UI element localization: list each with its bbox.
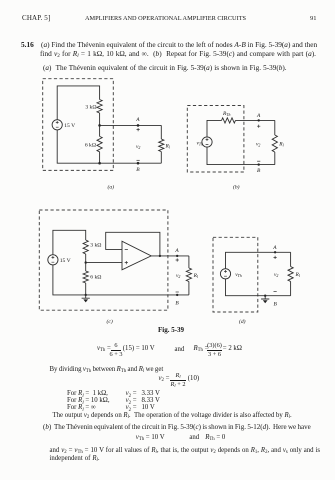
node B (c) [175, 292, 179, 307]
node A (a) [135, 117, 140, 131]
wire: junction to 6k and 6k to bottom (a) [99, 125, 101, 163]
wire: junction to node A and load corner (a) [100, 124, 162, 126]
svg-text:B: B [257, 168, 261, 174]
svg-text:6 kΩ: 6 kΩ [90, 275, 101, 281]
svg-text:Rl: Rl [278, 141, 283, 147]
svg-text:v2: v2 [136, 144, 140, 150]
svg-text:v2: v2 [274, 272, 278, 278]
ground symbol (c) [82, 295, 90, 303]
voltage source 15 V (a) [52, 120, 75, 130]
voltage source 15 V (c) [48, 255, 71, 265]
wire: 3k to junction (c) [85, 254, 87, 263]
svg-text:Rl: Rl [295, 272, 300, 278]
svg-text:(b): (b) [233, 184, 240, 191]
node output junction (c) [159, 255, 161, 257]
svg-text:(d): (d) [239, 318, 246, 325]
dashed enclosure box (c) [39, 210, 168, 310]
problem number and statement [21, 41, 34, 48]
running head [22, 15, 50, 22]
node junction bottom (a) [98, 162, 101, 165]
node A (b) [256, 113, 261, 128]
label v2 (a) [136, 144, 140, 150]
ground symbol (d) [261, 295, 269, 304]
wire: junction to op-amp noninverting input (c) [86, 262, 122, 264]
svg-text:(c): (c) [107, 318, 113, 325]
feedback wire from output to inverting input (c) [106, 232, 160, 256]
by dividing line [50, 367, 164, 374]
resistor 3 kOhm (c) [83, 240, 101, 254]
node B (b) [257, 161, 261, 174]
wire: source top to 3k resistor (a) [57, 86, 99, 120]
load resistor Rl (d) [288, 252, 300, 295]
node junction mid (c) [85, 261, 87, 263]
load resistor Rl (b) [272, 120, 283, 164]
svg-text:vTh: vTh [235, 272, 242, 278]
svg-text:6 kΩ: 6 kΩ [85, 142, 96, 148]
caption (b) [233, 184, 240, 191]
label v2 (d) [274, 272, 278, 278]
wire: op-amp output to load corner (c) [151, 255, 189, 257]
node A (d) [272, 245, 277, 259]
svg-text:15 V: 15 V [60, 258, 71, 264]
svg-text:(a): (a) [108, 184, 115, 191]
svg-text:A: A [135, 117, 140, 123]
For lines [67, 391, 108, 398]
wire: source top to 3k (c) [53, 230, 86, 255]
node junction between 3k and 6k (a) [98, 124, 101, 127]
dashed enclosure box (b) [187, 106, 244, 173]
caption (a) [108, 184, 115, 191]
svg-text:Rl: Rl [193, 273, 198, 279]
load resistor Rl (c) [186, 256, 198, 295]
svg-text:A: A [174, 248, 179, 254]
svg-text:3 kΩ: 3 kΩ [90, 243, 101, 249]
bottom rail and source return (d) [226, 279, 291, 296]
svg-text:B: B [136, 167, 140, 173]
bottom rail and source return (b) [207, 147, 275, 165]
wire: junction to 6k, 6k to bottom (c) [85, 263, 87, 295]
svg-text:B: B [175, 301, 179, 307]
resistor RTh (b) [222, 111, 236, 123]
Fig caption [158, 327, 184, 334]
op-amp U1 (c) [122, 241, 151, 270]
equation line 2 [159, 376, 170, 383]
label v2 (b) [256, 141, 260, 147]
node B labels (d) [274, 292, 278, 308]
node B (a) [136, 160, 140, 173]
svg-text:RTh: RTh [222, 111, 230, 117]
svg-text:3 kΩ: 3 kΩ [85, 104, 96, 110]
resistor 6 kOhm (a) [85, 136, 102, 151]
svg-text:Rl: Rl [165, 143, 170, 149]
wire: source top to load corner (d) [226, 252, 291, 269]
load resistor Rl (a) [159, 125, 170, 163]
node bottom junction (c) [85, 294, 87, 296]
caption (c) [107, 318, 113, 325]
resistor 3 kOhm (a) [85, 100, 102, 114]
svg-text:A: A [272, 245, 277, 251]
bottom rail and source return (c) [53, 265, 189, 295]
node A (c) [174, 248, 179, 261]
dashed enclosure box (d) [213, 237, 258, 312]
svg-text:v2: v2 [176, 273, 180, 279]
(b) paragraph [43, 424, 311, 431]
resistor 6 kOhm (c) [83, 271, 101, 283]
voltage source vTh (d) [220, 269, 241, 279]
label v2 (c) [176, 273, 180, 279]
equation line 1 [97, 346, 111, 353]
wire: source top to RTh (b) [207, 120, 222, 137]
caption (d) [239, 318, 246, 325]
wire: source bottom and bottom rail (a) [57, 130, 161, 164]
svg-text:B: B [274, 302, 278, 308]
svg-text:v2: v2 [256, 141, 260, 147]
dashed enclosure box (a) [43, 79, 114, 171]
svg-text:15 V: 15 V [64, 123, 75, 129]
voltage source vTh (b) [196, 137, 212, 147]
svg-text:A: A [256, 113, 261, 119]
wire: 3k to junction node (a) [99, 113, 101, 125]
wire: RTh to load corner (b) [236, 119, 275, 121]
